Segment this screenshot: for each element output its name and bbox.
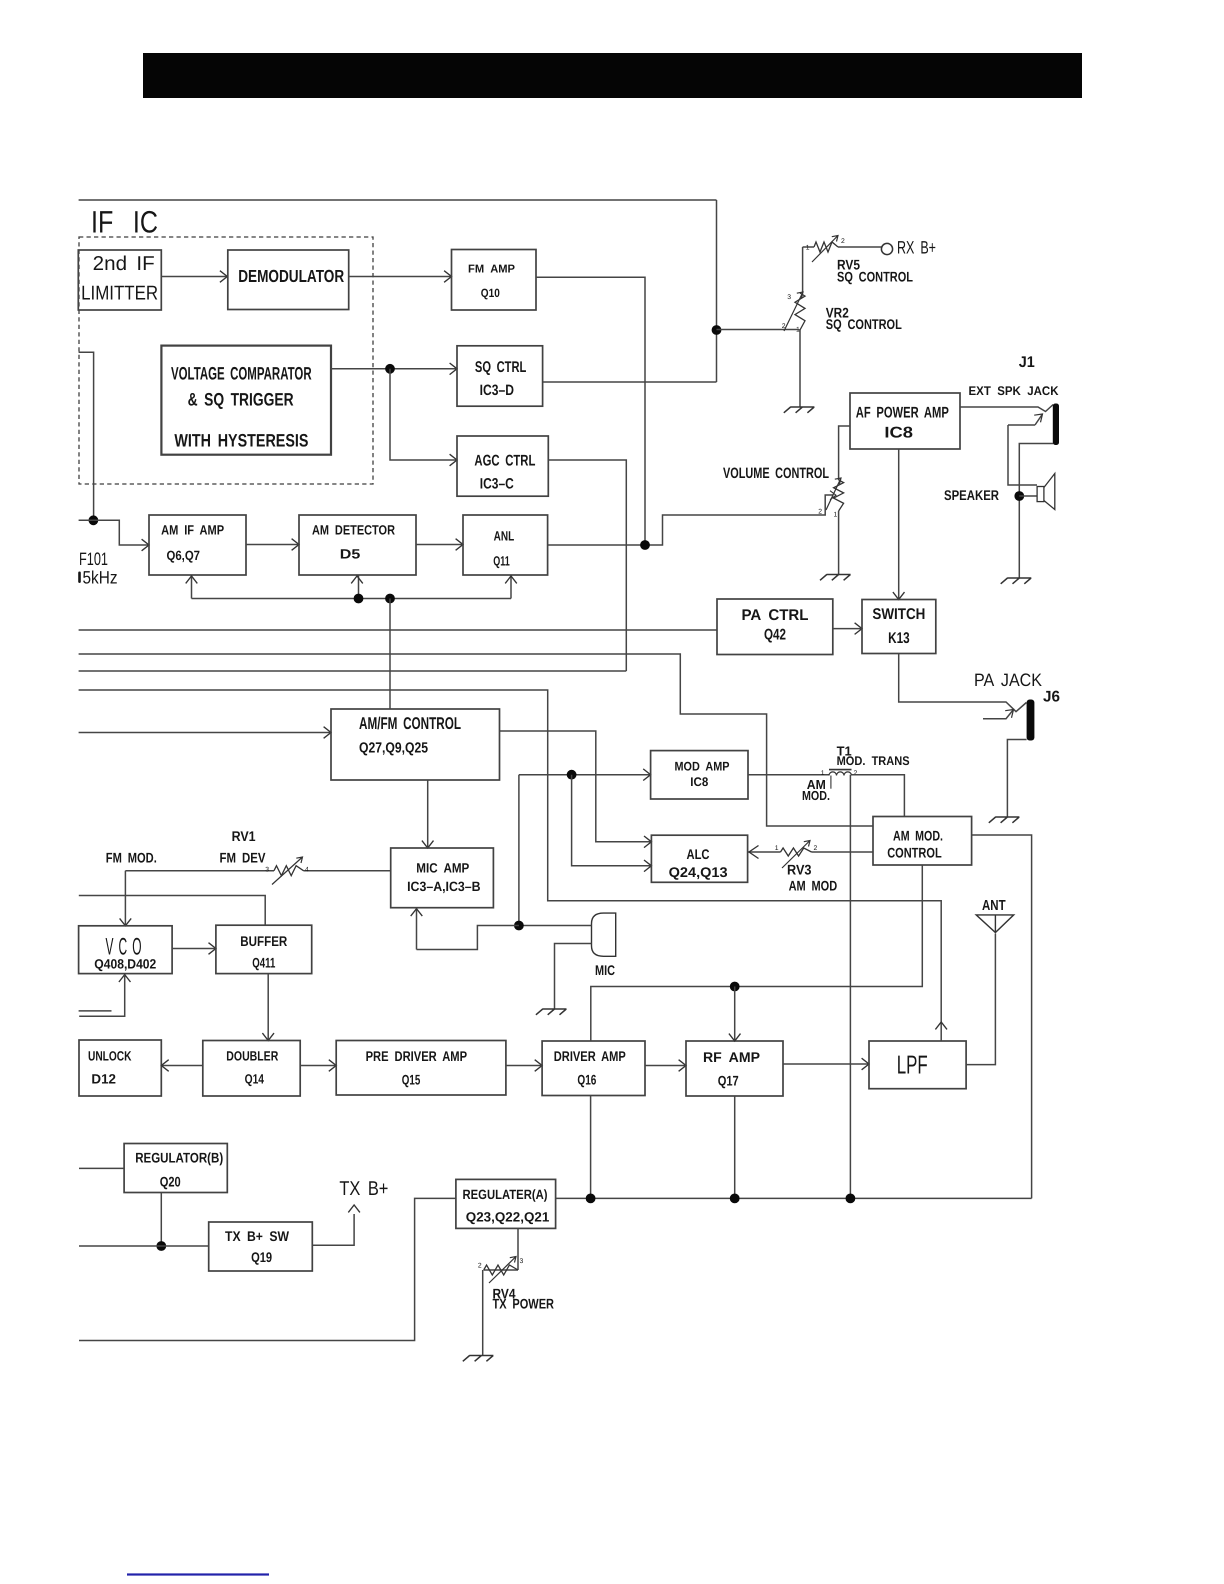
box AM MOD. CONTROL xyxy=(873,817,972,866)
wire AM/FM CONTROL output to ALC upper input xyxy=(500,731,652,842)
wire 2nd IF to DEMODULATOR xyxy=(161,276,227,278)
svg-text:2: 2 xyxy=(854,770,858,777)
svg-text:MIC AMP: MIC AMP xyxy=(416,861,469,876)
node junction rf amp xyxy=(730,1194,740,1204)
svg-text:Q19: Q19 xyxy=(251,1249,272,1265)
node junction RF AMP drive xyxy=(730,982,740,992)
svg-text:4: 4 xyxy=(305,867,309,874)
svg-text:UNLOCK: UNLOCK xyxy=(88,1048,132,1063)
svg-text:2: 2 xyxy=(814,845,818,852)
variable resistor VR2 SQ CONTROL xyxy=(795,293,805,330)
svg-text:D12: D12 xyxy=(91,1072,116,1087)
svg-text:ANL: ANL xyxy=(494,528,515,543)
wire T1 to AM MOD CONTROL top xyxy=(852,775,905,817)
speaker symbol xyxy=(1019,495,1037,497)
bus line 3 from AGC CTRL xyxy=(79,670,627,672)
wire FM AMP output to junction on ANL line xyxy=(536,277,645,540)
svg-text:MOD.: MOD. xyxy=(802,788,830,803)
node junction feedback to AM/FM control xyxy=(385,594,395,604)
wire volume pot to ground xyxy=(838,511,840,575)
svg-text:REGULATER(A): REGULATER(A) xyxy=(463,1187,548,1202)
svg-text:WITH HYSTERESIS: WITH HYSTERESIS xyxy=(174,430,308,450)
arrow feedback into ANL bottom xyxy=(510,575,512,599)
box RF AMP Q17 xyxy=(686,1041,783,1096)
svg-text:DRIVER AMP: DRIVER AMP xyxy=(554,1048,626,1064)
wire RX B+ riser: RV5 to VR2 xyxy=(802,247,804,293)
ground under speaker xyxy=(1001,578,1032,584)
svg-text:PRE DRIVER AMP: PRE DRIVER AMP xyxy=(366,1048,468,1064)
wire REGULATER(A) output line with junctions xyxy=(556,1197,1032,1199)
wire MOD AMP output to T1 xyxy=(748,774,829,776)
svg-text:MOD AMP: MOD AMP xyxy=(675,760,730,774)
node junction speaker xyxy=(1014,491,1024,501)
wire mic lower terminal to ground xyxy=(555,944,592,1010)
svg-text:Q14: Q14 xyxy=(245,1072,265,1087)
svg-text:Q6,Q7: Q6,Q7 xyxy=(167,548,201,563)
ground under volume control xyxy=(820,575,851,581)
svg-text:IF IC: IF IC xyxy=(91,205,158,240)
box SWITCH K13 xyxy=(862,600,936,654)
svg-text:AM/FM CONTROL: AM/FM CONTROL xyxy=(359,714,461,733)
label 455kHz partial xyxy=(78,572,81,584)
variable resistor RV5 xyxy=(814,242,838,252)
svg-text:Q411: Q411 xyxy=(252,955,275,971)
wire VCO to BUFFER xyxy=(172,948,216,950)
wire PA CTRL to SWITCH xyxy=(833,628,862,630)
wire RV1 line to MIC AMP xyxy=(125,870,390,872)
microphone MIC symbol xyxy=(592,913,616,956)
jack J1 switch contact arm xyxy=(1008,414,1043,425)
bus line 1 to PA CTRL xyxy=(79,629,717,631)
svg-text:D5: D5 xyxy=(340,546,361,561)
wire jack J6 sleeve to ground xyxy=(1007,740,1026,818)
svg-text:IC3–D: IC3–D xyxy=(480,382,514,399)
wire REGULATOR(B) down to TX B+ SW line xyxy=(160,1193,162,1247)
arrow into RF AMP top xyxy=(734,987,736,1042)
svg-text:MOD. TRANS: MOD. TRANS xyxy=(837,754,910,768)
svg-text:ALC: ALC xyxy=(687,846,710,862)
variable resistor RV4 TX POWER xyxy=(484,1265,518,1275)
svg-text:VOLUME CONTROL: VOLUME CONTROL xyxy=(723,465,829,482)
svg-text:AM IF AMP: AM IF AMP xyxy=(161,523,224,538)
wire T1 stub lead xyxy=(830,776,832,789)
svg-text:AM MOD: AM MOD xyxy=(789,877,838,893)
svg-text:RV1: RV1 xyxy=(232,828,256,844)
svg-text:DOUBLER: DOUBLER xyxy=(226,1048,278,1063)
wire junction down to ALC lower input xyxy=(572,775,652,866)
svg-text:1: 1 xyxy=(806,245,810,252)
svg-text:IC8: IC8 xyxy=(690,775,708,789)
svg-text:1: 1 xyxy=(834,512,838,519)
box 2nd IF LIMITTER xyxy=(78,250,161,310)
wire SWITCH to PA JACK J6 xyxy=(899,654,1027,712)
svg-text:RX B+: RX B+ xyxy=(897,238,936,258)
svg-text:Q10: Q10 xyxy=(481,286,500,300)
node junction TX B+ SW input xyxy=(156,1241,166,1251)
svg-text:RF AMP: RF AMP xyxy=(703,1049,760,1065)
box BUFFER Q411 xyxy=(216,925,312,973)
box ANL Q11 xyxy=(463,515,548,575)
svg-text:SPEAKER: SPEAKER xyxy=(944,487,999,503)
arrow into MIC AMP bottom xyxy=(416,908,418,950)
wire RF AMP to LPF xyxy=(783,1063,869,1065)
wire REGULATER(A) bottom to RV4 xyxy=(484,1228,518,1270)
svg-text:K13: K13 xyxy=(888,630,910,647)
wire long bottom line to REGULATER(A) xyxy=(79,1198,456,1340)
wire stub to VCO bottom xyxy=(79,976,125,1016)
wire MIC line to mic amp xyxy=(519,925,592,927)
svg-text:5kHz: 5kHz xyxy=(83,568,118,588)
svg-text:SQ CTRL: SQ CTRL xyxy=(475,359,526,376)
dashed IF IC box xyxy=(79,237,373,484)
jack J6 plug bar xyxy=(1027,700,1035,741)
svg-text:BUFFER: BUFFER xyxy=(240,933,287,949)
svg-text:Q408,D402: Q408,D402 xyxy=(94,957,156,972)
wire DEMODULATOR to FM AMP xyxy=(349,276,452,278)
svg-text:IC3–A,IC3–B: IC3–A,IC3–B xyxy=(407,879,481,894)
terminal RX B+ xyxy=(881,243,892,254)
node junction on CF101 line xyxy=(89,515,99,525)
svg-text:IC8: IC8 xyxy=(884,425,913,442)
svg-text:AM MOD.: AM MOD. xyxy=(893,828,943,844)
svg-text:J1: J1 xyxy=(1019,354,1035,371)
box AM DETECTOR D5 xyxy=(299,515,416,575)
svg-text:LPF: LPF xyxy=(897,1049,928,1079)
node junction feedback D5 xyxy=(354,594,364,604)
svg-text:2: 2 xyxy=(818,509,822,516)
wire AGC feedback bus line xyxy=(192,598,512,600)
wire VR2 to ground xyxy=(797,330,800,408)
variable resistor RV3 with wire to AM MOD CONTROL xyxy=(748,851,873,853)
box VOLTAGE COMPARATOR SQ TRIGGER xyxy=(161,346,331,455)
box AM/FM CONTROL Q27,Q9,Q25 xyxy=(331,709,500,780)
wire AM IF AMP to AM DETECTOR xyxy=(246,544,299,546)
wire T1 secondary long drop to B+ line xyxy=(849,775,851,1199)
svg-text:2nd IF: 2nd IF xyxy=(93,253,155,275)
wire BUFFER down to DOUBLER xyxy=(267,974,269,1041)
wire AF POWER AMP output to jack J1 xyxy=(960,405,1053,412)
ground under VR2 xyxy=(784,407,815,413)
wire AM MOD CONTROL right output down to B+ line xyxy=(972,835,1032,1198)
svg-text:FM AMP: FM AMP xyxy=(468,264,515,276)
bus line 4 to LPF riser xyxy=(79,690,942,1041)
svg-text:CONTROL: CONTROL xyxy=(887,845,942,861)
svg-text:F101: F101 xyxy=(79,549,108,569)
wire TX B+ SW input line xyxy=(79,1245,209,1247)
svg-text:RV3: RV3 xyxy=(787,862,812,878)
box VCO Q408,D402 xyxy=(79,926,173,974)
wire jack J1 sleeve to speaker/ground xyxy=(1019,444,1053,579)
jack J1 plug bar xyxy=(1053,404,1059,446)
svg-text:3: 3 xyxy=(520,1258,524,1265)
svg-text:J6: J6 xyxy=(1043,689,1060,706)
svg-text:TX B+ SW: TX B+ SW xyxy=(225,1228,290,1244)
svg-text:REGULATOR(B): REGULATOR(B) xyxy=(135,1150,223,1166)
box UNLOCK D12 xyxy=(79,1040,161,1096)
wire MOD AMP input line xyxy=(519,774,651,776)
box TX B+ SW Q19 xyxy=(209,1222,313,1271)
arrow up from LPF xyxy=(935,1022,947,1029)
svg-text:VOLTAGE COMPARATOR: VOLTAGE COMPARATOR xyxy=(171,363,312,383)
box FM AMP Q10 xyxy=(452,250,537,311)
wire left stub into IF IC region xyxy=(79,352,94,520)
node junction MOD AMP / ALC xyxy=(567,770,577,780)
box PRE DRIVER AMP Q15 xyxy=(336,1041,506,1096)
ground under RV4 xyxy=(463,1356,494,1362)
box MOD AMP IC8 xyxy=(651,751,748,799)
svg-text:3: 3 xyxy=(265,867,269,874)
bus line 2 to AM MOD CONTROL xyxy=(79,654,873,826)
svg-text:AM DETECTOR: AM DETECTOR xyxy=(312,522,395,537)
volume control potentiometer xyxy=(834,480,844,511)
node junction mic line xyxy=(514,921,524,931)
wire DOUBLER to UNLOCK xyxy=(161,1065,203,1067)
svg-text:& SQ TRIGGER: & SQ TRIGGER xyxy=(188,390,294,410)
box PA CTRL Q42 xyxy=(717,599,833,655)
IF IC top boundary line xyxy=(79,199,717,201)
wire DOUBLER to PRE DRIVER AMP xyxy=(300,1065,336,1067)
wire branch down to AGC CTRL xyxy=(390,369,457,460)
wire AF POWER AMP down to SWITCH xyxy=(898,449,900,600)
transformer T1 MOD. TRANS xyxy=(829,769,852,771)
wire PRE DRIVER to DRIVER AMP xyxy=(506,1065,542,1067)
header bar xyxy=(143,53,1082,98)
jack J6 contact arm xyxy=(983,710,1014,719)
wire junction to VR2 xyxy=(717,329,798,331)
svg-text:3: 3 xyxy=(787,294,791,301)
svg-text:SWITCH: SWITCH xyxy=(872,606,925,623)
node junction T1 drop xyxy=(846,1194,856,1204)
node junction to VR2 xyxy=(712,325,722,335)
svg-text:2: 2 xyxy=(478,1263,482,1270)
box SQ CTRL IC3-D xyxy=(457,346,543,406)
svg-text:2: 2 xyxy=(841,238,845,245)
box AF POWER AMP IC8 xyxy=(850,393,960,449)
node junction comparator output xyxy=(385,364,395,374)
svg-text:FM DEV: FM DEV xyxy=(220,850,267,866)
svg-text:PA JACK: PA JACK xyxy=(974,670,1042,690)
wire left stub to BUFFER top xyxy=(79,896,265,926)
box DRIVER AMP Q16 xyxy=(542,1041,645,1096)
svg-text:Q15: Q15 xyxy=(402,1072,421,1088)
box REGULATOR(B) Q20 xyxy=(124,1144,227,1193)
svg-text:SQ CONTROL: SQ CONTROL xyxy=(837,269,913,285)
svg-text:TX POWER: TX POWER xyxy=(493,1296,555,1312)
wire RF AMP bottom to regulator line xyxy=(734,1096,736,1198)
variable resistor RV1 xyxy=(274,866,304,876)
wire stub into REGULATOR(B) xyxy=(79,1167,124,1169)
box DEMODULATOR xyxy=(228,250,349,310)
box AGC CTRL IC3-C xyxy=(457,436,548,496)
bus line 5 to AM/FM CONTROL xyxy=(79,732,331,734)
wire TX B+ SW output to TX B+ arrow xyxy=(312,1214,354,1245)
wire VOLTAGE COMPARATOR to SQ CTRL xyxy=(331,368,457,370)
svg-text:PA CTRL: PA CTRL xyxy=(742,607,809,624)
svg-text:LIMITTER: LIMITTER xyxy=(81,283,158,305)
wire AM/FM CONTROL down to MIC AMP xyxy=(427,780,429,848)
svg-text:TX B+: TX B+ xyxy=(339,1178,388,1200)
ground under MIC xyxy=(536,1009,567,1015)
svg-text:DEMODULATOR: DEMODULATOR xyxy=(238,266,344,286)
wire FM MOD line down to VCO xyxy=(124,871,126,926)
node junction FM/ANL xyxy=(640,540,650,550)
blue footer link line xyxy=(127,1573,269,1575)
wire CF101 line to AM IF AMP xyxy=(79,520,149,545)
arrow feedback into AM DETECTOR bottom xyxy=(358,575,360,599)
svg-text:AGC CTRL: AGC CTRL xyxy=(474,453,535,470)
wire DRIVER AMP bottom to regulator line xyxy=(590,1096,592,1199)
svg-text:1: 1 xyxy=(821,770,825,777)
svg-text:Q27,Q9,Q25: Q27,Q9,Q25 xyxy=(359,741,428,757)
svg-text:1: 1 xyxy=(775,845,779,852)
wire AF POWER AMP input from volume xyxy=(839,426,850,480)
wire SQ CTRL output to RV5/VR2 riser xyxy=(543,200,717,382)
box REGULATER(A) Q23,Q22,Q21 xyxy=(456,1179,556,1228)
wire junction down to AM/FM CONTROL xyxy=(389,599,391,710)
wire AGC CTRL output down to bus line 3 xyxy=(548,460,626,671)
svg-text:Q17: Q17 xyxy=(718,1073,739,1089)
svg-text:Q23,Q22,Q21: Q23,Q22,Q21 xyxy=(466,1209,550,1224)
box MIC AMP IC3-A,IC3-B xyxy=(391,848,494,908)
svg-text:FM MOD.: FM MOD. xyxy=(106,850,157,866)
ground under J6 xyxy=(989,817,1020,823)
box LPF xyxy=(869,1041,966,1089)
svg-text:MIC: MIC xyxy=(595,962,615,978)
box AM IF AMP Q6,Q7 xyxy=(149,515,246,575)
wire RV4 to ground xyxy=(482,1270,484,1356)
svg-text:EXT SPK JACK: EXT SPK JACK xyxy=(969,384,1059,398)
svg-text:IC3–C: IC3–C xyxy=(480,476,514,493)
node junction driver amp xyxy=(586,1194,596,1204)
wire AM DETECTOR to ANL xyxy=(416,544,463,546)
svg-text:AF POWER AMP: AF POWER AMP xyxy=(856,405,949,422)
wire short stub above xyxy=(79,1010,112,1012)
wire DRIVER AMP to RF AMP xyxy=(645,1065,686,1067)
arrow feedback into AM IF AMP bottom xyxy=(191,575,193,599)
svg-text:ANT: ANT xyxy=(982,898,1006,914)
box DOUBLER Q14 xyxy=(203,1041,300,1097)
box ALC Q24,Q13 xyxy=(651,835,747,882)
svg-text:2: 2 xyxy=(782,323,786,330)
svg-text:SQ CONTROL: SQ CONTROL xyxy=(826,316,902,332)
wire AM MOD CONTROL bottom output to driver/rf line xyxy=(591,865,923,1041)
svg-text:Q42: Q42 xyxy=(764,627,786,644)
wire riser from mic line to MOD AMP line xyxy=(518,775,520,922)
wire ANL output to volume control xyxy=(548,495,833,545)
svg-text:Q20: Q20 xyxy=(160,1174,181,1190)
svg-text:Q16: Q16 xyxy=(577,1072,596,1088)
antenna ANT symbol xyxy=(976,915,1014,933)
svg-text:Q24,Q13: Q24,Q13 xyxy=(669,864,728,880)
svg-text:Q11: Q11 xyxy=(493,553,510,568)
wire LPF output to ANT xyxy=(966,934,995,1065)
